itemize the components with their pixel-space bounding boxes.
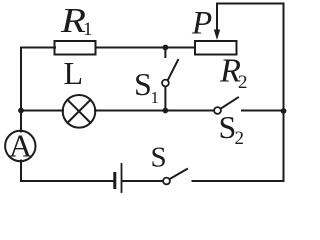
svg-text:1: 1 <box>83 19 93 40</box>
battery positive plate (long) <box>121 164 123 192</box>
wire: bottom left segment <box>21 180 114 182</box>
resistor R1 <box>55 41 96 55</box>
switch S2 <box>214 107 221 114</box>
svg-text:S: S <box>134 66 152 102</box>
wire: lamp branch left segment <box>21 110 63 112</box>
wire: left rail <box>20 48 22 111</box>
rheostat wiper arrow head <box>214 30 220 41</box>
wire: left rail to R1 left lead <box>21 47 55 49</box>
wire: S2 to right rail <box>242 110 284 112</box>
wire: left rail into ammeter <box>20 111 22 132</box>
svg-text:L: L <box>64 55 84 91</box>
svg-text:2: 2 <box>238 72 248 93</box>
wire: top right, wiper feed to right rail <box>217 4 284 31</box>
node: top junction (S1 tap) <box>163 45 169 51</box>
svg-text:2: 2 <box>235 128 245 149</box>
wire: R1 right lead to R2 left terminal <box>96 47 195 49</box>
wire: ammeter to bottom rail <box>20 161 22 182</box>
ammeter A <box>5 131 35 161</box>
switch S <box>163 178 170 185</box>
svg-text:A: A <box>9 128 32 164</box>
node: S2 / right rail <box>281 108 287 114</box>
wire: lamp to switch S2 <box>95 110 214 112</box>
switch S1 <box>164 48 166 58</box>
rheostat R2 body <box>195 41 237 55</box>
svg-text:1: 1 <box>151 88 160 107</box>
node: S1 / lamp branch <box>163 108 169 114</box>
lamp L <box>63 95 96 128</box>
wire: battery to switch S <box>123 180 164 182</box>
wire: S to bottom right corner <box>193 180 284 182</box>
node: left rail / lamp branch <box>18 108 24 114</box>
svg-text:P: P <box>191 6 212 42</box>
wire: right rail <box>283 4 285 182</box>
battery negative plate (short) <box>113 174 116 188</box>
svg-text:S: S <box>151 142 167 174</box>
